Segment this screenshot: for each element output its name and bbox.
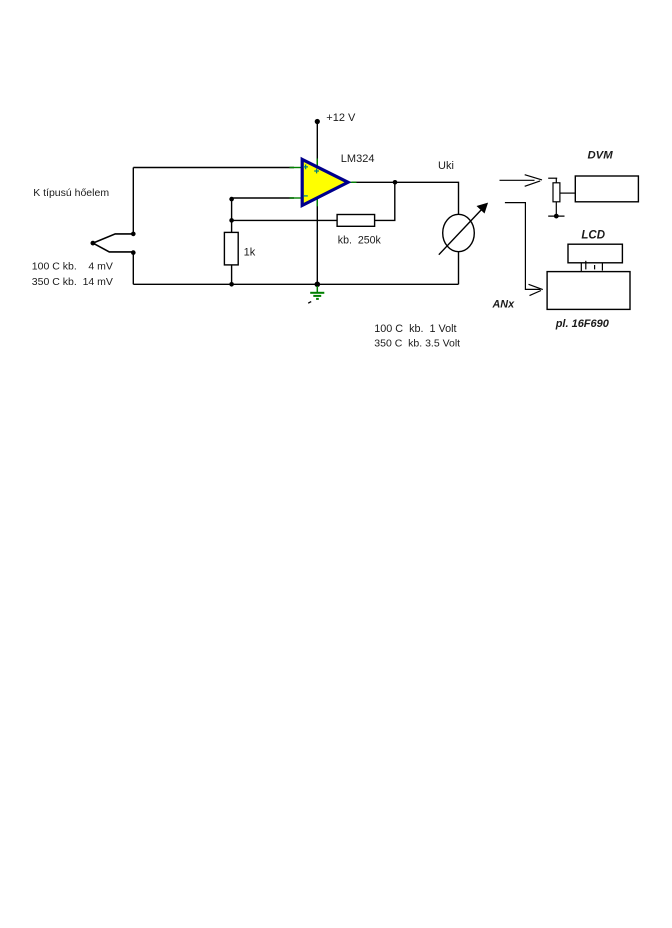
pin stub V+ top (green) — [316, 159, 318, 167]
stray mark below ground — [308, 302, 311, 304]
arrow to DVM — [500, 175, 543, 187]
wire DVM resistor to DVM box — [560, 192, 575, 194]
node thermocouple tip — [91, 241, 96, 246]
op-amp + marking — [303, 165, 308, 170]
svg-text:350 C kb. 3.5 Volt: 350 C kb. 3.5 Volt — [374, 338, 460, 350]
LCD pin 4 — [601, 263, 603, 270]
wire thermocouple upper lead — [93, 234, 133, 243]
svg-text:100 C kb. 4 mV: 100 C kb. 4 mV — [32, 261, 113, 273]
LCD pin 3 — [594, 265, 596, 269]
pin stub output (green) — [347, 181, 357, 183]
pin stub V- bottom (green) — [316, 198, 318, 206]
node output junction — [393, 180, 398, 185]
resistor R1 1k — [224, 232, 238, 265]
wire left vertical upper — [132, 168, 134, 234]
node 1k ground — [229, 282, 234, 287]
wire ANx run — [505, 203, 541, 290]
svg-text:100 C kb. 1 Volt: 100 C kb. 1 Volt — [374, 323, 456, 335]
DVM input resistor — [548, 178, 564, 216]
svg-text:+12 V: +12 V — [326, 112, 356, 124]
svg-text:Uki: Uki — [438, 160, 454, 172]
meter arrowhead — [478, 203, 488, 212]
wire inverting input — [232, 198, 294, 232]
node inverting corner — [229, 197, 234, 202]
svg-text:DVM: DVM — [588, 149, 614, 161]
wire +12V power rail — [316, 122, 318, 285]
node DVM resistor ground — [554, 214, 559, 219]
wire 1k bottom lead — [231, 265, 233, 284]
node +12V terminal — [315, 119, 320, 124]
arrow chevron ANx — [529, 284, 543, 295]
node thermocouple upper junction — [131, 232, 136, 237]
DVM box — [575, 176, 638, 202]
svg-text:LM324: LM324 — [341, 153, 375, 165]
LCD pin 1 — [580, 263, 582, 271]
node ground junction — [315, 282, 321, 288]
wire output to meter — [352, 182, 459, 214]
op-amp + power marking — [314, 169, 319, 174]
ground symbol — [310, 286, 324, 299]
wire thermocouple lower lead — [93, 243, 133, 252]
LCD box — [568, 244, 622, 263]
svg-text:1k: 1k — [244, 246, 256, 258]
pin stub -in (green) — [290, 197, 303, 199]
svg-text:pl. 16F690: pl. 16F690 — [555, 318, 610, 330]
svg-text:350 C kb. 14 mV: 350 C kb. 14 mV — [32, 276, 113, 288]
svg-text:LCD: LCD — [581, 230, 605, 242]
node thermocouple lower junction — [131, 250, 136, 255]
svg-text:ANx: ANx — [492, 298, 516, 310]
wire meter bottom lead — [458, 252, 460, 285]
wire left vertical lower — [132, 253, 134, 285]
meter needle diagonal — [439, 209, 483, 255]
op-amp U1 LM324 — [302, 159, 348, 205]
LCD pin 2 — [585, 261, 587, 270]
meter M1 — [443, 214, 475, 251]
wire 250k left lead — [232, 219, 338, 221]
wire ground bus bottom — [133, 283, 458, 285]
resistor R2 250k — [337, 215, 375, 227]
MCU box 16F690 — [547, 272, 630, 310]
svg-text:kb. 250k: kb. 250k — [338, 234, 382, 246]
wire 250k right lead to output — [375, 182, 395, 220]
svg-text:K típusú hőelem: K típusú hőelem — [33, 187, 109, 199]
op-amp - marking — [303, 195, 307, 197]
wire top from thermocouple to op-amp +in — [133, 167, 294, 169]
pin stub +in (green) — [290, 167, 303, 169]
node feedback tap — [229, 218, 234, 223]
